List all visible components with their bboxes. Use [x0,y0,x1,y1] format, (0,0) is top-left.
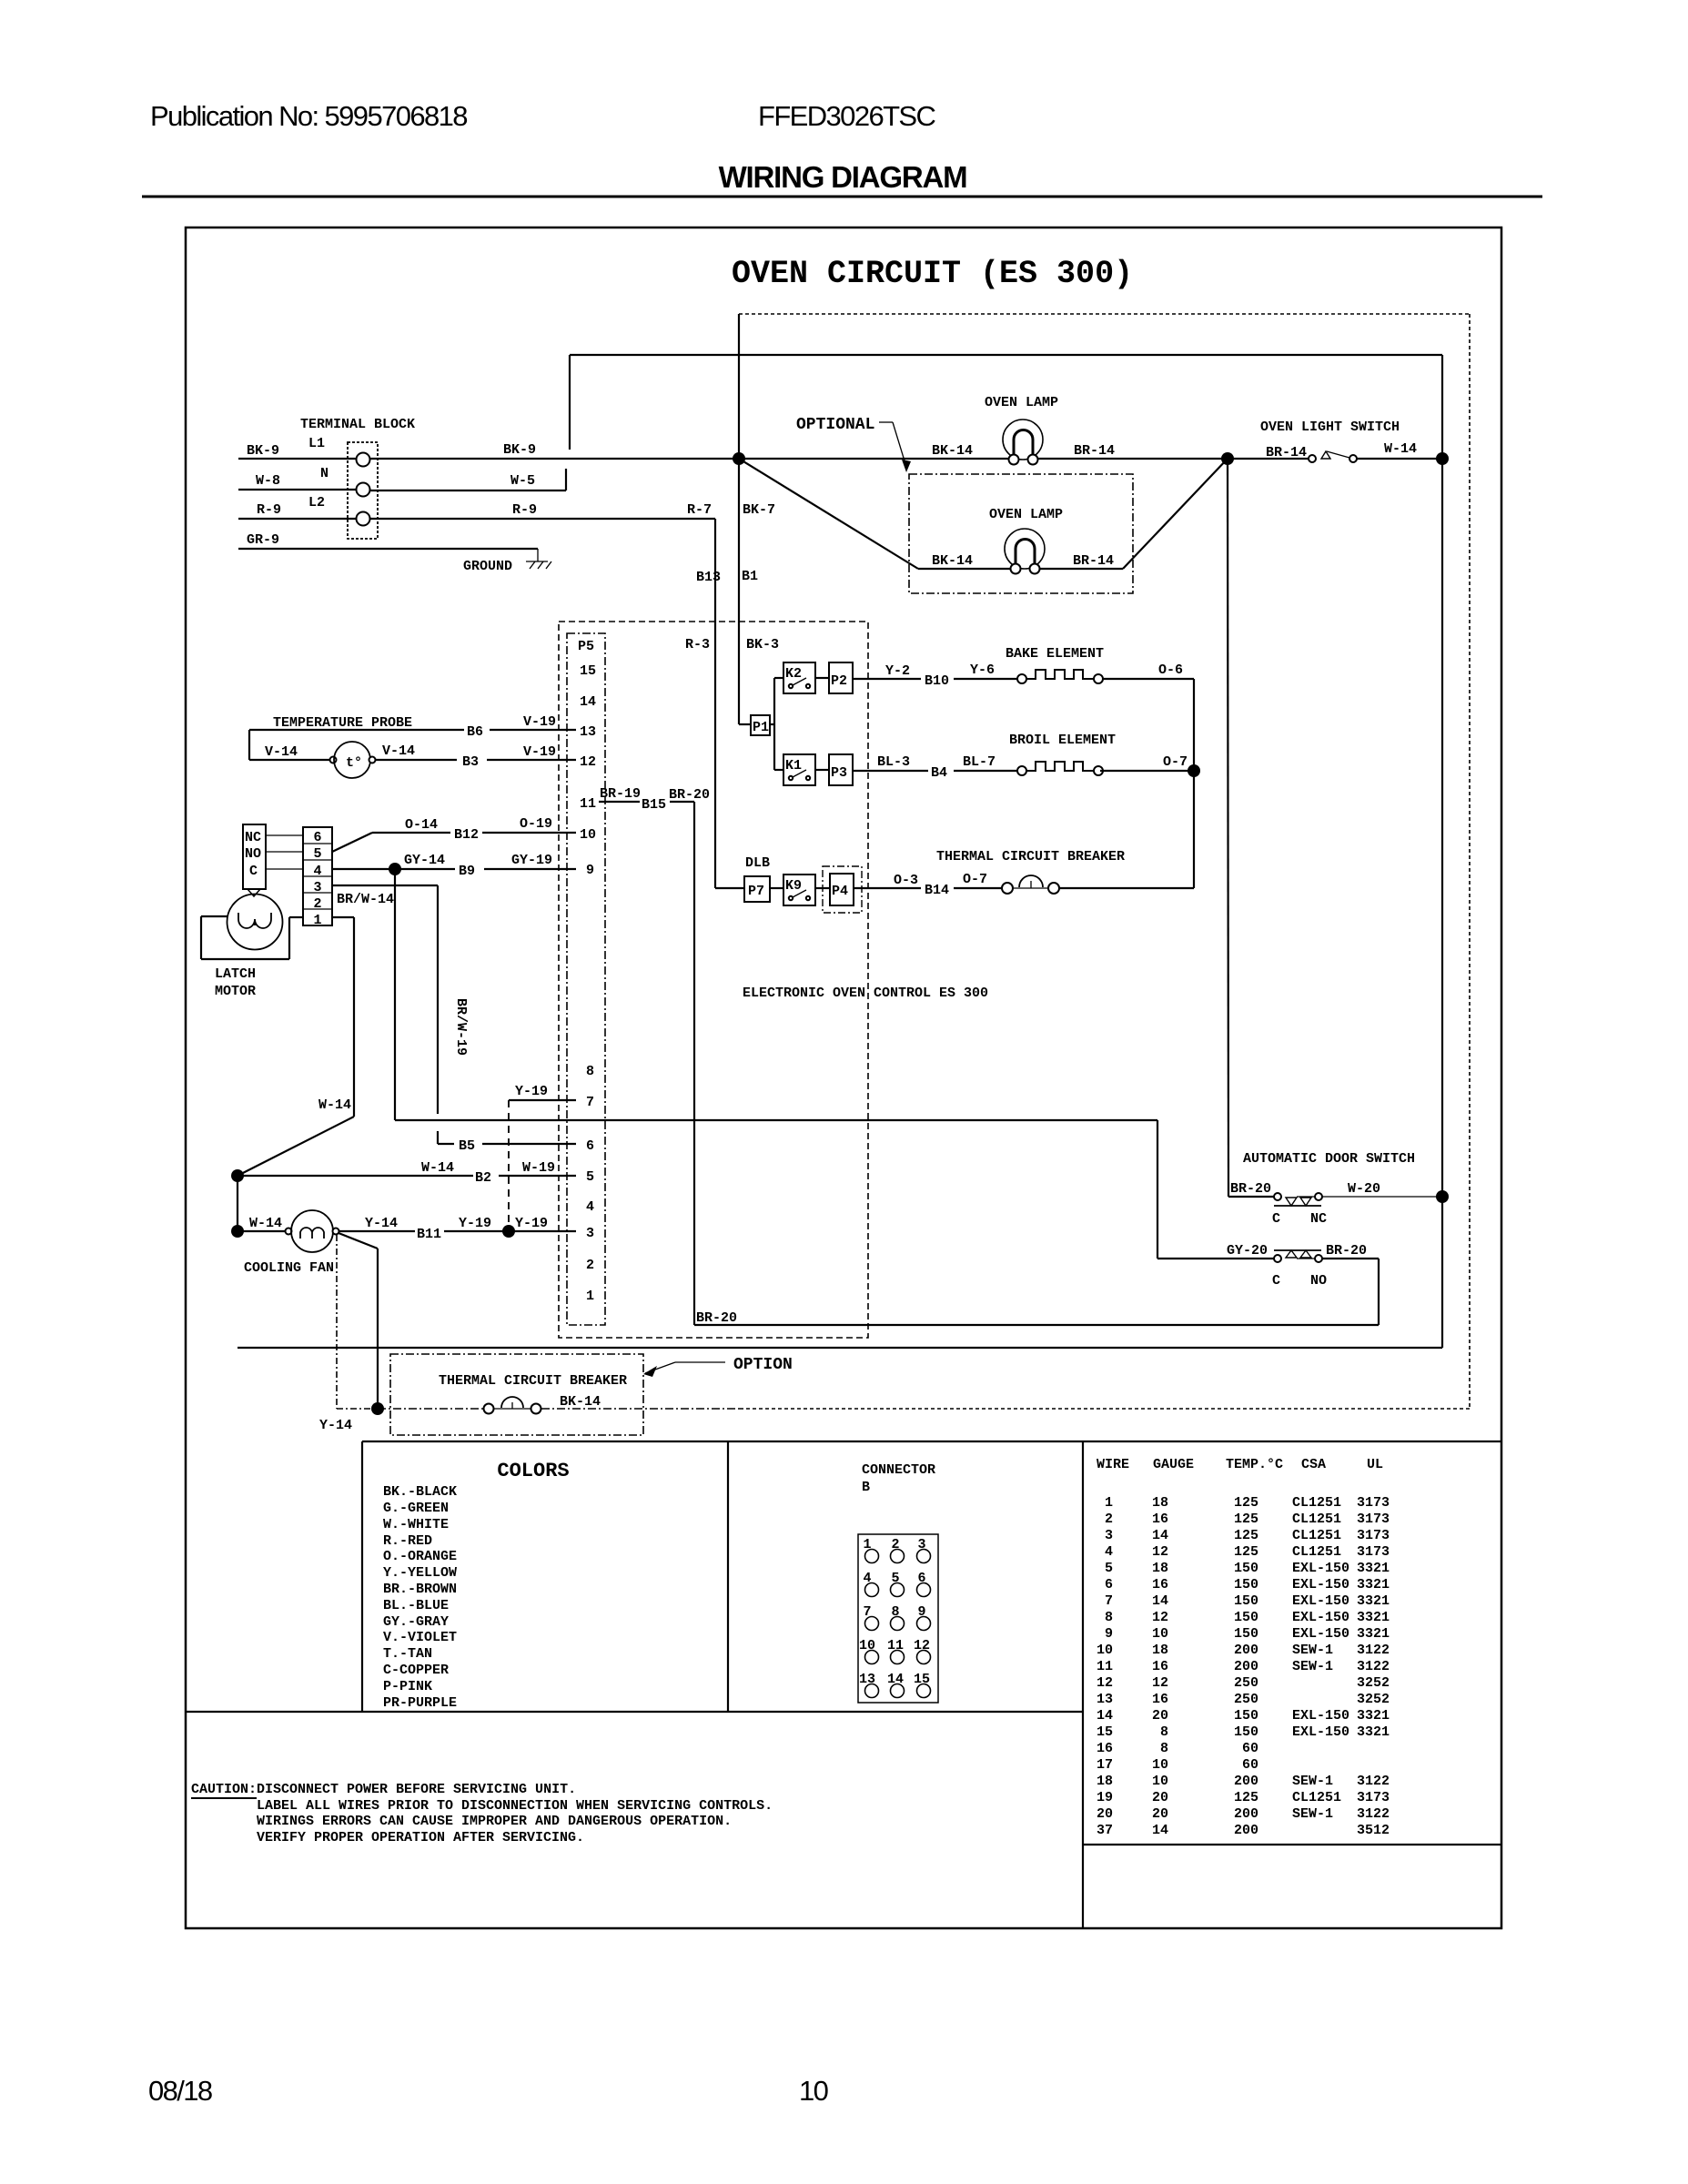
svg-text:P5: P5 [578,639,594,654]
svg-text:R.-RED: R.-RED [383,1533,432,1549]
wire BR-14 down to door switch [1228,459,1274,1197]
svg-text:BK-9: BK-9 [247,443,279,459]
svg-text:W-8: W-8 [256,473,280,489]
wire B6 / V-19 to pin 13 [249,730,576,760]
door switch NC contact [1274,1193,1322,1206]
svg-text:3173: 3173 [1357,1544,1390,1560]
svg-text:OPTIONAL: OPTIONAL [796,416,874,434]
svg-text:250: 250 [1234,1675,1258,1691]
wire K1 to P3 [815,769,829,771]
svg-text:OVEN LIGHT SWITCH: OVEN LIGHT SWITCH [1260,420,1400,435]
wire BR-14 lamp2 to junction [1040,459,1228,569]
svg-text:14: 14 [1097,1708,1113,1724]
svg-text:B11: B11 [417,1227,441,1242]
wire from C junction down to door switch feed [395,869,1157,1120]
node W-20 junction [1436,1190,1449,1203]
thermal circuit breaker [1002,875,1059,894]
wire W-20 to right rail [1322,1196,1442,1198]
svg-text:GR-9: GR-9 [247,532,279,548]
svg-text:P1: P1 [753,720,769,735]
svg-text:18: 18 [1152,1495,1168,1511]
svg-text:BAKE ELEMENT: BAKE ELEMENT [1006,646,1104,662]
connector P2 [829,662,853,693]
svg-text:TERMINAL BLOCK: TERMINAL BLOCK [300,417,415,432]
svg-text:EXL-150: EXL-150 [1292,1593,1349,1609]
svg-text:O-14: O-14 [405,817,438,833]
svg-text:AUTOMATIC DOOR SWITCH: AUTOMATIC DOOR SWITCH [1243,1151,1415,1167]
wire W-14 / B2 / W-19 to pin 5 [238,1176,576,1231]
svg-text:CL1251: CL1251 [1292,1512,1341,1527]
svg-text:17: 17 [1097,1757,1113,1773]
svg-text:3173: 3173 [1357,1790,1390,1805]
svg-text:Y-19: Y-19 [515,1216,548,1231]
svg-text:60: 60 [1242,1757,1258,1773]
wire Y-2 / B10 / Y-6 to bake element [853,678,1017,680]
svg-text:GAUGE: GAUGE [1153,1457,1194,1472]
svg-text:W-5: W-5 [510,473,535,489]
svg-text:6: 6 [313,830,321,845]
svg-text:3321: 3321 [1357,1593,1390,1609]
svg-text:3122: 3122 [1357,1659,1390,1674]
svg-text:200: 200 [1234,1806,1258,1822]
svg-text:BR/W-19: BR/W-19 [453,998,469,1056]
svg-text:18: 18 [1152,1643,1168,1658]
connector P3 [829,754,853,785]
svg-text:3321: 3321 [1357,1708,1390,1724]
svg-text:Y-14: Y-14 [319,1418,352,1433]
connector B pin grid [858,1534,938,1703]
svg-text:SEW-1: SEW-1 [1292,1806,1333,1822]
svg-text:10: 10 [580,827,596,843]
svg-text:8: 8 [586,1064,594,1079]
svg-text:3173: 3173 [1357,1512,1390,1527]
svg-text:10: 10 [1152,1757,1168,1773]
wire O-7 from broil element [1100,770,1194,772]
wire BK-14 option dash-dot [378,1408,740,1410]
svg-text:TEMP.°C: TEMP.°C [1226,1457,1283,1472]
svg-text:BR-20: BR-20 [696,1310,737,1326]
svg-text:O-19: O-19 [520,816,552,832]
wire K2 to P2 [815,677,829,679]
svg-text:18: 18 [1097,1774,1113,1789]
svg-text:4: 4 [586,1199,594,1215]
connector P5 dash-dot box [567,633,605,1325]
wire Y-19 dashed option vertical [508,1100,510,1231]
bake element [1017,670,1103,683]
connector P7 [744,876,770,902]
svg-text:60: 60 [1242,1741,1258,1756]
neutral drop from top rail [569,355,571,450]
wire gauge table header [1097,1457,1383,1472]
svg-text:150: 150 [1234,1561,1258,1576]
svg-text:B15: B15 [642,797,666,813]
svg-text:BK-9: BK-9 [503,442,536,458]
svg-text:NC: NC [1310,1211,1327,1227]
svg-text:L2: L2 [308,495,325,511]
wire W-8 input N [238,489,356,490]
svg-text:200: 200 [1234,1643,1258,1658]
svg-text:K1: K1 [785,758,802,773]
P5 pin numbers [580,663,596,1304]
oven circuit dotted boundary box [739,314,1470,1409]
wire BK-7 / B1 vertical [739,314,751,724]
svg-text:CL1251: CL1251 [1292,1790,1341,1805]
svg-text:3: 3 [1105,1528,1113,1543]
svg-text:1: 1 [313,913,321,928]
svg-text:R-9: R-9 [257,502,281,518]
relay K1 [783,754,815,785]
wire NC to pin6 [266,834,303,836]
svg-text:EXL-150: EXL-150 [1292,1724,1349,1740]
svg-text:15: 15 [1097,1724,1113,1740]
svg-text:2: 2 [313,896,321,912]
svg-text:CSA: CSA [1301,1457,1326,1472]
svg-text:125: 125 [1234,1512,1258,1527]
svg-text:EXL-150: EXL-150 [1292,1626,1349,1642]
svg-text:V-14: V-14 [382,743,415,759]
svg-text:B1: B1 [742,569,758,584]
svg-text:MOTOR: MOTOR [215,984,256,999]
wire R-9 to EOC [370,518,715,520]
svg-text:3: 3 [313,880,321,895]
latch motor loop wire to pin 1 [201,916,303,959]
OPTIONAL label with arrow [796,416,911,472]
svg-text:11: 11 [580,796,596,812]
svg-text:P4: P4 [832,884,848,899]
svg-text:DLB: DLB [745,855,770,871]
svg-text:BL.-BLUE: BL.-BLUE [383,1598,449,1613]
wire GY-20 to NO door switch [1157,1120,1274,1259]
svg-text:CONNECTOR: CONNECTOR [862,1462,935,1478]
svg-text:SEW-1: SEW-1 [1292,1659,1333,1674]
svg-text:OVEN LAMP: OVEN LAMP [985,395,1058,410]
svg-text:COOLING FAN: COOLING FAN [244,1260,334,1276]
node Y-19 junction [502,1225,515,1238]
terminal block [348,442,378,539]
wire B5 pin 6 [438,1143,576,1145]
wire W-14 pin1 down [238,917,354,1176]
wire K9 to P4 [815,887,830,889]
broil element [1017,762,1103,775]
svg-text:W-14: W-14 [1384,441,1417,457]
connector P1 [751,715,770,735]
svg-text:R-7: R-7 [687,502,712,518]
svg-text:B14: B14 [925,883,949,898]
svg-text:BR-20: BR-20 [1326,1243,1367,1259]
svg-text:BR-14: BR-14 [1073,553,1114,569]
wire Y-14 fan to thermal breaker solid [339,1233,378,1409]
svg-text:Y-6: Y-6 [970,662,995,678]
svg-text:L1: L1 [308,436,325,451]
svg-text:BR-20: BR-20 [669,787,710,803]
wire BR-19 / B15 / BR-20 from pin 11 [599,802,694,1325]
svg-text:150: 150 [1234,1724,1258,1740]
svg-text:BK-14: BK-14 [560,1394,601,1410]
svg-text:LATCH: LATCH [215,966,256,982]
caution text block [191,1782,773,1845]
svg-text:16: 16 [1097,1741,1113,1756]
svg-text:GY-14: GY-14 [404,853,445,868]
svg-text:200: 200 [1234,1659,1258,1674]
wire W-14 switch to right rail [1357,458,1442,460]
svg-text:NO: NO [1310,1273,1327,1289]
wire C to pin4 [266,868,303,870]
svg-text:3321: 3321 [1357,1724,1390,1740]
wire R-9 input L2 [238,518,356,520]
optional lamp dash-dot box [909,474,1133,593]
svg-text:14: 14 [1152,1593,1168,1609]
svg-text:16: 16 [1152,1659,1168,1674]
svg-text:O-6: O-6 [1158,662,1183,678]
svg-text:C: C [249,864,258,879]
header rule [142,196,1542,198]
svg-text:T.-TAN: T.-TAN [383,1646,432,1662]
svg-text:8: 8 [1160,1724,1168,1740]
svg-text:2: 2 [586,1258,594,1273]
svg-text:3321: 3321 [1357,1610,1390,1625]
svg-text:THERMAL CIRCUIT BREAKER: THERMAL CIRCUIT BREAKER [439,1373,627,1389]
node GY-14 junction [389,863,401,875]
svg-text:R-3: R-3 [685,637,710,652]
svg-text:BL-3: BL-3 [877,754,910,770]
svg-text:3173: 3173 [1357,1495,1390,1511]
svg-text:GY-20: GY-20 [1227,1243,1268,1259]
svg-text:O-7: O-7 [963,872,987,887]
wire Y-14 / B11 / Y-19 fan to pin 3 [339,1230,576,1232]
svg-text:BL-7: BL-7 [963,754,996,770]
relay K9 [783,875,815,905]
node cooling fan junction [231,1225,244,1238]
svg-text:13: 13 [1097,1692,1113,1707]
svg-text:BK-3: BK-3 [746,637,779,652]
latch motor [227,895,283,950]
svg-text:6: 6 [1105,1577,1113,1592]
svg-text:12: 12 [1097,1675,1113,1691]
svg-text:6: 6 [586,1138,594,1154]
oven lamp 1 [1003,420,1043,465]
wire O-3 / B14 / O-7 to thermal breaker [854,887,1002,889]
svg-text:CL1251: CL1251 [1292,1495,1341,1511]
svg-text:1: 1 [586,1289,594,1304]
svg-text:14: 14 [1152,1528,1168,1543]
wire BR-20 from NO contact [694,1259,1379,1325]
svg-text:BR-14: BR-14 [1266,445,1307,460]
svg-text:3122: 3122 [1357,1806,1390,1822]
svg-text:14: 14 [1152,1823,1168,1838]
svg-text:10: 10 [799,2075,829,2107]
svg-text:BK-14: BK-14 [932,443,973,459]
svg-text:EXL-150: EXL-150 [1292,1708,1349,1724]
svg-text:20: 20 [1152,1708,1168,1724]
svg-text:13: 13 [580,724,596,740]
svg-text:150: 150 [1234,1577,1258,1592]
temperature probe [249,742,376,778]
svg-text:WIRINGS ERRORS CAN CAUSE IMPRO: WIRINGS ERRORS CAN CAUSE IMPROPER AND DA… [257,1814,732,1829]
svg-text:Y-14: Y-14 [365,1216,398,1231]
wire W-14 to cooling fan [238,1230,285,1232]
svg-text:W-14: W-14 [318,1097,351,1113]
oven lamp 2 [1005,529,1045,574]
svg-text:V-19: V-19 [523,714,556,730]
legend panel borders [186,1441,1501,1928]
svg-text:N: N [320,466,329,481]
wire thermal breaker to junction [1059,771,1194,888]
svg-text:5: 5 [586,1169,594,1185]
oven light switch [1309,451,1357,462]
node W-14 junction upper [231,1169,244,1182]
svg-text:V.-VIOLET: V.-VIOLET [383,1630,457,1645]
node bake broil junction [1188,764,1200,777]
svg-text:150: 150 [1234,1593,1258,1609]
svg-text:11: 11 [1097,1659,1113,1674]
right rail W-14 [238,355,1442,1348]
svg-text:10: 10 [1152,1626,1168,1642]
svg-text:OVEN CIRCUIT (ES 300): OVEN CIRCUIT (ES 300) [732,256,1133,292]
svg-text:3173: 3173 [1357,1528,1390,1543]
svg-text:B9: B9 [459,864,475,879]
svg-text:BK-7: BK-7 [743,502,775,518]
svg-text:BROIL ELEMENT: BROIL ELEMENT [1009,733,1116,748]
svg-text:16: 16 [1152,1512,1168,1527]
svg-text:BR/W-14: BR/W-14 [337,892,394,907]
svg-text:8: 8 [1160,1741,1168,1756]
svg-text:OVEN LAMP: OVEN LAMP [989,507,1063,522]
svg-text:OPTION: OPTION [733,1356,793,1374]
optional thermal circuit breaker contact [484,1397,541,1414]
svg-text:Y-2: Y-2 [885,663,910,679]
connector P4 with dash-dot box [823,866,862,913]
svg-text:200: 200 [1234,1823,1258,1838]
wire P1 to relay branch [770,678,783,770]
wire B13 vertical [715,519,744,888]
wire GR-9 ground input [238,548,538,550]
svg-text:12: 12 [1152,1675,1168,1691]
svg-text:BK-14: BK-14 [932,553,973,569]
svg-text:W-20: W-20 [1348,1181,1380,1197]
svg-text:3321: 3321 [1357,1626,1390,1642]
svg-text:EXL-150: EXL-150 [1292,1610,1349,1625]
svg-text:3321: 3321 [1357,1561,1390,1576]
svg-text:12: 12 [580,754,596,770]
svg-text:K9: K9 [785,878,802,894]
svg-text:BR-20: BR-20 [1230,1181,1271,1197]
wire W-5 neutral [370,469,566,490]
wire O-6 from bake element [1103,679,1194,771]
relay K2 [783,662,815,693]
svg-text:B6: B6 [467,724,483,740]
caution underline [191,1797,257,1799]
svg-text:W.-WHITE: W.-WHITE [383,1517,449,1532]
svg-text:12: 12 [1152,1544,1168,1560]
svg-text:t°: t° [346,755,362,771]
wire gauge table rows [1097,1495,1390,1838]
svg-text:B10: B10 [925,673,949,689]
wire fan option dash-dot vertical [337,1235,373,1409]
svg-text:V-19: V-19 [523,744,556,760]
wire NO to pin5 [266,851,303,853]
svg-text:WIRING DIAGRAM: WIRING DIAGRAM [719,160,967,194]
svg-text:B3: B3 [462,754,479,770]
svg-text:12: 12 [1152,1610,1168,1625]
svg-text:W-14: W-14 [249,1216,282,1231]
top feed rail [570,354,1442,356]
svg-text:UL: UL [1367,1457,1383,1472]
svg-text:B4: B4 [931,765,947,781]
svg-text:C: C [1272,1273,1280,1289]
svg-text:19: 19 [1097,1790,1113,1805]
svg-text:EXL-150: EXL-150 [1292,1561,1349,1576]
svg-text:COLORS: COLORS [497,1460,569,1482]
cooling fan [286,1210,339,1252]
svg-text:P3: P3 [831,765,847,781]
wire Y-19 pin 7 [509,1099,576,1101]
svg-text:BR.-BROWN: BR.-BROWN [383,1582,457,1597]
svg-text:1: 1 [1105,1495,1113,1511]
svg-text:3: 3 [586,1226,594,1241]
svg-text:125: 125 [1234,1495,1258,1511]
svg-text:Y-19: Y-19 [459,1216,491,1231]
wire BR-14 lamp1 to junction [1038,458,1309,460]
svg-text:O-7: O-7 [1163,754,1188,770]
svg-text:250: 250 [1234,1692,1258,1707]
svg-text:P7: P7 [748,884,764,899]
svg-text:3122: 3122 [1357,1774,1390,1789]
node BR-14 junction [1221,452,1234,465]
svg-text:BR-19: BR-19 [600,786,641,802]
NC NO C contact box [243,824,266,896]
svg-text:9: 9 [1105,1626,1113,1642]
svg-text:V-14: V-14 [265,744,298,760]
svg-text:Publication No: 5995706818: Publication No: 5995706818 [150,100,467,132]
svg-text:B12: B12 [454,827,479,843]
wire O-14 / B12 / O-19 pin5 to pin 10 [332,833,576,852]
svg-text:3252: 3252 [1357,1675,1390,1691]
svg-text:NO: NO [245,846,261,862]
svg-text:W-19: W-19 [522,1160,555,1176]
svg-text:R-9: R-9 [512,502,537,518]
wire P7 to K9 [770,887,783,889]
wire BK-9 input L1 [238,458,356,460]
optional thermal circuit breaker box [390,1354,643,1435]
svg-text:BK.-BLACK: BK.-BLACK [383,1484,457,1500]
svg-text:B: B [862,1480,870,1495]
svg-text:10: 10 [1097,1643,1113,1658]
svg-text:20: 20 [1152,1806,1168,1822]
svg-text:EXL-150: EXL-150 [1292,1577,1349,1592]
svg-text:10: 10 [1152,1774,1168,1789]
svg-text:3512: 3512 [1357,1823,1390,1838]
door switch NO contact [1274,1250,1322,1262]
svg-text:150: 150 [1234,1708,1258,1724]
svg-text:O.-ORANGE: O.-ORANGE [383,1549,457,1564]
svg-text:CL1251: CL1251 [1292,1528,1341,1543]
svg-text:125: 125 [1234,1528,1258,1543]
svg-text:16: 16 [1152,1577,1168,1592]
svg-text:TEMPERATURE PROBE: TEMPERATURE PROBE [273,715,412,731]
svg-text:FFED3026TSC: FFED3026TSC [758,100,936,132]
svg-text:LABEL ALL WIRES PRIOR TO DISCO: LABEL ALL WIRES PRIOR TO DISCONNECTION W… [257,1798,773,1814]
svg-text:7: 7 [586,1095,594,1110]
node BK-9 junction [733,452,745,465]
svg-text:P2: P2 [831,673,847,689]
colors list [383,1484,457,1711]
svg-text:K2: K2 [785,666,802,682]
svg-text:3252: 3252 [1357,1692,1390,1707]
svg-text:37: 37 [1097,1823,1113,1838]
svg-text:GY.-GRAY: GY.-GRAY [383,1614,449,1630]
svg-text:18: 18 [1152,1561,1168,1576]
svg-text:P-PINK: P-PINK [383,1679,432,1694]
